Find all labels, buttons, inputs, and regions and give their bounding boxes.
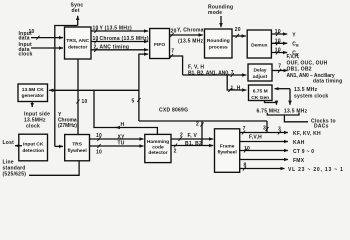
wire 3-bit drop (266, 121, 268, 133)
svg-text:flywheel: flywheel (67, 148, 87, 154)
svg-text:7: 7 (243, 126, 246, 132)
svg-text:Frame: Frame (220, 143, 235, 149)
tick 7 KF row (242, 131, 245, 135)
block Input CK detection (19, 134, 48, 161)
wire Delay adjust out (272, 70, 288, 72)
svg-text:OUF, OUC, OUH: OUF, OUC, OUH (287, 60, 328, 66)
wire sync det branch vertical (55, 26, 78, 147)
svg-text:2: 2 (180, 133, 183, 139)
wire 2-bit drop (201, 121, 203, 146)
svg-text:clock: clock (26, 124, 40, 130)
wire TRS flywheel XY out (90, 138, 144, 140)
svg-text:10: 10 (93, 26, 99, 32)
tick 1,H (228, 88, 231, 92)
wire Hamming F,V out (171, 138, 213, 140)
svg-text:10: 10 (275, 29, 281, 35)
svg-text:10: 10 (244, 146, 250, 152)
wire Rounding to Demux (232, 35, 246, 37)
wire VL row (240, 168, 285, 170)
svg-text:KF, KV, KH: KF, KV, KH (293, 131, 321, 137)
svg-text:TU: TU (118, 141, 125, 147)
wire 6.75MHz down arrow (265, 101, 277, 105)
svg-text:system clock: system clock (294, 93, 328, 99)
tick 10 Demux Y (276, 32, 279, 36)
tick 5 riser (137, 98, 140, 102)
block Frame flywheel (215, 129, 240, 173)
tick Chroma 10 (94, 40, 97, 44)
block Rounding process (205, 29, 233, 58)
wire Demux out Y (271, 33, 287, 35)
tick 10 TU (97, 144, 100, 148)
wire Demux out CB (271, 42, 287, 44)
svg-text:20: 20 (235, 27, 241, 33)
svg-text:data: data (19, 35, 30, 41)
svg-text:2: 2 (196, 122, 199, 128)
svg-text:ANC timing: ANC timing (100, 44, 130, 50)
tick ANC 2 (94, 48, 97, 52)
svg-text:F, V: F, V (188, 133, 198, 139)
wire KF KV KH row (240, 132, 288, 134)
svg-text:DACs: DACs (314, 123, 329, 129)
block Hamming code detector (145, 134, 171, 162)
tick 10 Y Chroma down (76, 100, 79, 104)
svg-text:adjust: adjust (253, 74, 268, 80)
svg-text:B1, B2, AN1, AN0,: B1, B2, AN1, AN0, (188, 71, 230, 77)
svg-text:CXD 8069G: CXD 8069G (159, 108, 188, 114)
wire line standard (29, 161, 79, 176)
svg-text:10: 10 (96, 133, 102, 139)
tick 3 KF row (278, 131, 281, 135)
svg-text:Input CK: Input CK (23, 142, 44, 148)
svg-text:7: 7 (171, 49, 174, 55)
wire bus A horizontal (139, 120, 267, 122)
wire FIFO 7-bit pin down (170, 56, 183, 75)
svg-text:F,V,H: F,V,H (249, 135, 262, 141)
svg-text:10: 10 (93, 36, 99, 42)
svg-text:FMX: FMX (293, 158, 305, 164)
wire H from Hamming to clock junction (94, 90, 157, 134)
block 6.75M CK Gen (249, 85, 273, 101)
svg-text:6.75 M: 6.75 M (253, 89, 268, 95)
block Demux (247, 30, 271, 58)
svg-text:detector: detector (148, 150, 167, 156)
svg-text:generator: generator (22, 93, 45, 99)
tick 2 Hamming FV (178, 137, 181, 141)
svg-text:H: H (121, 122, 125, 128)
wire Demux out CR (271, 52, 287, 54)
svg-text:VL 23 ~ 20, 13 ~ 1: VL 23 ~ 20, 13 ~ 1 (288, 167, 344, 173)
wire lost out (15, 145, 22, 147)
svg-text:10: 10 (82, 99, 88, 105)
wire FIFO to Rounding (170, 34, 203, 36)
wire input data clock (31, 47, 63, 49)
svg-text:7: 7 (278, 63, 281, 69)
wire clocks to DACs lead (284, 115, 308, 122)
svg-text:CT 9 ~ 0: CT 9 ~ 0 (293, 149, 314, 155)
svg-text:13.5M CK: 13.5M CK (22, 87, 44, 93)
tick 2 Hamming B1B2 (174, 144, 177, 148)
svg-text:Hamming: Hamming (147, 139, 169, 145)
tick 10 XY (97, 137, 100, 141)
svg-text:F,V,H,: F,V,H, (287, 54, 301, 60)
svg-text:flywheel: flywheel (217, 149, 237, 155)
svg-text:CK Gen: CK Gen (251, 95, 269, 101)
svg-text:OB1, OB2: OB1, OB2 (287, 67, 312, 73)
svg-text:5: 5 (132, 99, 135, 105)
tick 20 out FIFO (170, 33, 173, 37)
wire TRS flywheel TU out (90, 145, 144, 147)
svg-text:6.75 MHz: 6.75 MHz (257, 108, 281, 114)
wire Hamming B1,B2 out (171, 145, 213, 147)
svg-text:TRS: TRS (72, 142, 83, 148)
wire input data (31, 37, 63, 39)
wire Rounding mode input (220, 16, 222, 27)
svg-text:2: 2 (94, 44, 97, 50)
svg-text:TRS, ANC: TRS, ANC (66, 38, 89, 44)
block 13.5M CK generator (18, 84, 48, 102)
svg-text:Chroma (13.5 MHz): Chroma (13.5 MHz) (100, 36, 149, 42)
svg-text:Rounding: Rounding (207, 38, 230, 44)
svg-text:2: 2 (174, 148, 177, 154)
block FIFO (150, 29, 170, 59)
tick Y 10 (94, 29, 97, 33)
tick 7 FIFO pin (170, 54, 173, 58)
tick 10 Demux CB (276, 41, 279, 45)
wire 13.5MHz system clock (275, 88, 291, 90)
wire Chroma 13.5MHz to FIFO (91, 41, 148, 43)
tick 8 VL row (243, 167, 246, 171)
wire CT row (240, 150, 288, 152)
svg-text:Delay: Delay (253, 68, 266, 74)
wire Y 13.5MHz to FIFO (91, 30, 148, 32)
tick 7 Delay out (278, 69, 281, 73)
wire 13.5MHz down arrow (289, 89, 291, 105)
svg-text:13.5 MHz: 13.5 MHz (294, 87, 318, 93)
wire bus to Delay adjust (183, 74, 247, 76)
wire clocks bracket (267, 113, 299, 115)
svg-text:10: 10 (275, 38, 281, 44)
wire KAH row (240, 141, 288, 143)
svg-text:FIFO: FIFO (154, 42, 165, 48)
tick 2 drop (200, 123, 203, 127)
svg-text:10: 10 (29, 29, 35, 35)
tick 3 drop (265, 127, 268, 131)
svg-text:8: 8 (244, 162, 247, 168)
wire input clock to TRS flywheel (55, 145, 63, 147)
wire input side clock down arrow (31, 102, 33, 108)
tick 10 CT row (244, 149, 247, 153)
svg-text:(27MHz): (27MHz) (58, 123, 77, 129)
wire FMX row (240, 159, 288, 161)
block Delay adjust (248, 64, 272, 81)
svg-text:3: 3 (263, 126, 266, 132)
block TRS, ANC detector (65, 27, 92, 59)
svg-text:clock: clock (19, 51, 33, 57)
wire Y Chroma 27MHz down (77, 59, 79, 135)
svg-text:det: det (72, 8, 80, 14)
svg-text:10: 10 (96, 150, 102, 156)
svg-text:10: 10 (275, 48, 281, 54)
block TRS flywheel (65, 135, 90, 161)
wire 1,H branch to 6.75M CK Gen (227, 75, 246, 90)
wire H arrowhead (116, 127, 120, 129)
svg-text:Y (13.5 MHz): Y (13.5 MHz) (100, 26, 132, 32)
svg-text:code: code (152, 144, 164, 150)
svg-text:Y: Y (292, 32, 296, 38)
svg-text:(525/625): (525/625) (3, 172, 27, 178)
svg-text:Lost: Lost (3, 140, 15, 146)
tick bus 7 (231, 73, 234, 77)
svg-text:process: process (209, 45, 228, 51)
svg-text:3: 3 (278, 127, 281, 133)
svg-text:KAH: KAH (293, 140, 305, 146)
tick 20 Demux in (236, 34, 239, 38)
svg-text:1, H: 1, H (231, 86, 241, 92)
svg-text:mode: mode (208, 10, 222, 16)
svg-text:B1, B2: B1, B2 (185, 141, 202, 147)
wire 5-bit riser to FIFO (139, 54, 148, 121)
svg-text:Y, Chroma: Y, Chroma (177, 28, 204, 34)
tick input data 10 (36, 36, 39, 40)
svg-text:(13.5 MHz): (13.5 MHz) (178, 39, 205, 45)
wire 13.5MHz to CK generator (49, 89, 139, 91)
svg-text:data timing: data timing (313, 79, 342, 85)
svg-text:detector: detector (68, 45, 87, 51)
svg-text:detection: detection (22, 148, 44, 154)
wire ANC timing to FIFO (91, 49, 148, 51)
wire sync det arrow (77, 16, 79, 26)
svg-text:CB: CB (292, 42, 299, 48)
svg-text:13.5 MHz: 13.5 MHz (284, 108, 308, 114)
svg-text:20: 20 (171, 29, 177, 35)
svg-text:XY: XY (118, 134, 126, 140)
svg-text:Demux: Demux (251, 43, 268, 49)
svg-text:7: 7 (231, 70, 234, 76)
tick 10 Demux CR (276, 51, 279, 55)
